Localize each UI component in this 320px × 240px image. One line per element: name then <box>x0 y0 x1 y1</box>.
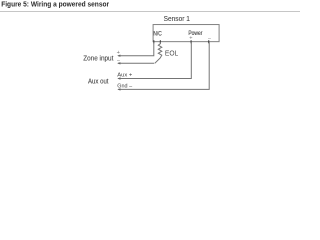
svg-text:Gnd –: Gnd – <box>117 84 132 90</box>
arrowhead zone plus <box>117 55 120 57</box>
svg-text:Figure 5: Wiring a powered sen: Figure 5: Wiring a powered sensor <box>1 1 109 8</box>
terminal tick N/C left <box>153 40 154 43</box>
svg-text:–: – <box>117 57 120 63</box>
caption rule <box>0 11 300 12</box>
svg-text:EOL: EOL <box>165 48 178 57</box>
wire zone plus <box>118 42 154 56</box>
terminal tick Power plus <box>191 40 192 43</box>
wire gnd <box>118 42 209 90</box>
wire aux plus <box>118 42 191 79</box>
svg-text:Aux +: Aux + <box>117 73 132 79</box>
svg-text:N/C: N/C <box>153 30 162 37</box>
resistor EOL <box>155 42 162 64</box>
arrowhead zone minus <box>117 62 120 64</box>
svg-text:Sensor 1: Sensor 1 <box>164 14 190 23</box>
sensor box U1 <box>153 25 219 42</box>
wire zone minus <box>118 62 154 64</box>
svg-text:+: + <box>117 50 120 56</box>
terminal tick Power minus <box>208 40 209 43</box>
terminal tick N/C right <box>160 40 161 43</box>
arrowhead gnd <box>117 88 120 90</box>
arrowhead aux plus <box>117 77 120 79</box>
svg-text:Zone input: Zone input <box>83 56 113 63</box>
svg-text:Aux out: Aux out <box>88 79 109 86</box>
